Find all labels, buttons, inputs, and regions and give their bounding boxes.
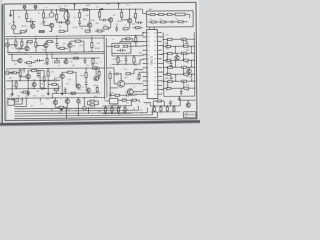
svg-text:100n: 100n [91,20,95,22]
relay coil K2 [49,12,54,17]
svg-text:4k7: 4k7 [178,98,181,100]
resistor R32 [133,57,135,62]
svg-text:P2: P2 [5,104,7,106]
capacitor C10 [125,58,128,60]
junction dots [26,10,27,11]
resistor R50 [90,100,95,102]
svg-text:23: 23 [154,63,156,65]
svg-text:47u: 47u [133,17,136,19]
dot [121,73,122,74]
resistor R35 [47,71,49,76]
svg-text:10k: 10k [58,112,61,114]
resistor R11 [103,27,108,29]
resistor R65 [97,30,102,32]
wire bus line [14,115,152,116]
dashed enclosure (tuner box) [147,11,194,27]
wire bus line [14,117,157,118]
resistor R49 [59,106,64,108]
gnd [178,98,180,99]
wire [75,72,77,84]
wire [51,28,53,32]
resistor R27 [91,43,93,48]
svg-text:26: 26 [154,76,156,78]
wire [110,87,118,89]
svg-text:13: 13 [148,41,150,43]
resistor R14 [150,14,155,16]
transistor Q1 [30,24,34,28]
dot [46,54,47,55]
svg-text:10k: 10k [18,17,21,19]
wire vertical bus 2 [105,38,108,97]
resistor R21 [15,41,17,46]
resistor R17 [175,13,185,16]
wire [147,14,150,16]
resistor R75 [98,71,100,76]
transistor Q8 [44,43,48,47]
resistor R23 [35,42,37,47]
svg-text:10k: 10k [51,71,54,73]
resistor R7 [59,30,64,32]
capacitor C18 [37,59,39,62]
svg-text:+12V: +12V [86,5,91,7]
svg-text:22: 22 [154,59,156,61]
svg-text:R74: R74 [41,96,44,98]
resistor R52 [27,62,32,64]
wire [112,63,140,65]
transistor Q2 [49,23,53,27]
svg-text:560: 560 [166,48,169,50]
svg-text:0.1: 0.1 [21,70,23,72]
svg-text:R70: R70 [9,96,12,98]
wire [151,108,153,115]
svg-text:100n: 100n [66,109,70,111]
svg-text:30: 30 [154,94,156,96]
capacitor C20 [40,87,42,90]
resistor R69 [126,38,130,40]
svg-text:560: 560 [97,43,100,45]
transistor Q6 [127,19,131,23]
resistor R9 [85,30,90,32]
svg-text:P4: P4 [5,109,7,111]
svg-text:10k: 10k [40,103,43,105]
resistor R3 [20,31,25,33]
svg-text:330: 330 [172,108,175,110]
svg-text:BD135: BD135 [109,93,114,95]
wire [164,95,195,97]
wire [95,68,97,76]
resistor R31 [117,57,119,62]
wire bus line [14,107,120,110]
power transistor Q15 [127,89,133,95]
svg-text:330: 330 [139,53,142,55]
svg-text:4u7: 4u7 [71,94,74,96]
wire [142,9,144,13]
relay box [109,98,118,104]
svg-text:25: 25 [154,72,156,74]
svg-text:2n2: 2n2 [104,25,107,27]
wire bus line [14,103,22,105]
capacitor C26 [170,76,173,78]
wire [51,54,53,58]
svg-text:10k: 10k [67,16,70,18]
svg-text:560: 560 [125,39,128,41]
svg-text:R38: R38 [91,65,94,67]
svg-text:47k: 47k [72,65,75,67]
svg-text:C20: C20 [36,91,39,93]
capacitor C5 [102,19,104,22]
wire [193,32,196,96]
ground [10,10,12,13]
svg-text:1k: 1k [118,115,120,117]
svg-text:4: 4 [148,81,149,83]
svg-text:10k: 10k [152,99,155,101]
wire [133,91,143,93]
resistor R28 [115,45,120,47]
capacitor C14 [109,93,112,95]
capacitor C2 [42,20,45,22]
wire [61,80,63,92]
svg-text:Q6: Q6 [116,24,118,26]
svg-text:BC547: BC547 [118,21,123,23]
svg-text:R43: R43 [186,50,189,52]
resistor R13 [123,28,128,30]
svg-text:4u7: 4u7 [30,88,33,90]
svg-text:47u: 47u [68,79,71,81]
wire drop [87,107,89,113]
svg-text:100n: 100n [80,75,84,77]
resistor R20 [178,21,183,23]
dot [15,44,16,45]
gnd [47,92,49,93]
svg-text:4k7: 4k7 [30,19,33,21]
svg-text:P6: P6 [5,114,7,116]
resistor R64 [96,87,98,91]
wire [112,55,143,57]
resistor R44 pair [166,59,171,61]
capacitor C4 [78,21,81,23]
svg-text:100k: 100k [79,45,83,47]
svg-text:330: 330 [17,52,20,54]
transistor Q4 [87,23,91,27]
svg-text:Q14: Q14 [124,77,127,79]
svg-text:R77: R77 [135,69,138,71]
transistor Q19 [65,99,69,103]
resistor R55 [74,57,79,59]
svg-text:T2: T2 [133,87,135,89]
svg-text:C21: C21 [58,86,61,88]
dot [104,67,105,68]
svg-text:BD135: BD135 [112,105,117,107]
svg-text:5: 5 [148,76,149,78]
svg-text:7: 7 [148,68,149,70]
test point TP1 [23,5,26,8]
svg-text:4k7: 4k7 [12,86,15,88]
wire [120,40,143,42]
svg-text:17: 17 [154,37,156,39]
resistor R25 [59,47,64,49]
svg-text:4u7: 4u7 [14,64,17,66]
dot [26,21,27,22]
wire bus line [14,101,18,103]
wire [97,101,99,105]
capacitor C9 [120,49,122,52]
resistor R45 pair [168,66,173,68]
title block [183,112,196,118]
svg-text:3: 3 [148,85,149,87]
svg-text:330: 330 [74,53,77,55]
svg-text:47k: 47k [186,90,189,92]
svg-text:BD135: BD135 [95,48,100,50]
transistor Q5 [108,18,112,22]
wire [113,68,115,84]
svg-text:0.1: 0.1 [58,65,60,67]
svg-text:2n2: 2n2 [59,26,62,28]
transistor Q10 [26,74,30,78]
svg-text:12: 12 [148,46,150,48]
svg-text:1: 1 [148,94,149,96]
resistor R26 [75,40,80,42]
svg-text:C22: C22 [107,29,110,31]
svg-text:4k7: 4k7 [81,28,84,30]
svg-text:21: 21 [154,54,156,56]
svg-text:C4: C4 [74,17,76,19]
dot [7,52,8,53]
node B arrow [117,3,119,9]
wire [106,45,111,47]
svg-text:1n: 1n [186,102,188,104]
svg-text:1n: 1n [112,39,114,41]
svg-text:BC547: BC547 [90,107,95,109]
dot [18,98,19,99]
dot [121,9,122,10]
svg-text:R73: R73 [33,96,36,98]
svg-text:R60: R60 [49,80,52,82]
dot [35,38,36,39]
wire mid rail 2 [5,37,103,40]
svg-text:C9: C9 [127,5,129,7]
capacitor C6 [170,20,172,23]
svg-text:TDA1170: TDA1170 [151,55,154,65]
svg-text:47k: 47k [55,19,58,21]
wire [40,69,44,71]
wire rail [52,57,100,59]
svg-text:L2: L2 [160,19,162,21]
transistor Q9 [68,43,72,47]
gnd [60,108,62,109]
svg-text:330: 330 [186,62,189,64]
resistor R78 [21,41,23,46]
transistor Q16 [175,56,179,60]
svg-text:R71: R71 [17,96,20,98]
resistor R41 pair [167,38,172,40]
svg-text:TV-7: TV-7 [185,113,189,115]
resistor R18 [151,21,156,23]
scan shadow left edge [1,4,3,124]
wire [13,10,15,24]
transistor Q17 [187,69,191,73]
svg-text:F1: F1 [46,7,48,9]
svg-text:1n: 1n [166,90,168,92]
wire inter-row links [166,40,168,46]
resistor R5 [39,30,44,32]
svg-text:C6: C6 [176,19,178,21]
svg-text:18: 18 [154,41,156,43]
trimmer P1 [11,25,15,29]
wire [161,36,163,38]
resistor R15 [159,13,164,15]
resistor R58 [15,83,17,87]
svg-text:20: 20 [154,50,156,52]
svg-text:L1: L1 [150,19,152,21]
resistor R61 [43,77,45,81]
dot [85,68,86,69]
enclosure box [112,43,131,53]
resistor R47 pair [168,80,173,82]
svg-text:BC547: BC547 [156,101,161,103]
wire mid rail 1 [5,35,143,36]
resistor R24 [47,40,52,42]
wire [42,59,44,61]
capacitor C23 [138,21,140,24]
svg-text:1k: 1k [12,48,14,50]
resistor R12 [120,12,122,17]
gnd [61,92,63,93]
wire top supply rail [11,9,143,10]
resistor R1 [60,9,65,11]
svg-text:0.1: 0.1 [123,98,125,100]
dot [89,9,90,10]
svg-text:1k: 1k [97,29,99,31]
wire [133,70,135,74]
svg-text:11: 11 [148,50,150,52]
transistor Q13 [94,76,99,81]
resistor R38 [93,67,98,69]
resistor R53 [46,58,48,63]
connector K1 body [8,99,15,105]
dot [20,80,21,81]
wire rail [150,111,180,113]
resistor R74 [157,100,161,102]
IC U1 right pins [157,31,161,33]
lamp L3 [77,99,81,103]
wire [119,106,121,108]
inductor L4 [64,11,69,20]
wire [149,27,151,29]
svg-text:BC547: BC547 [113,59,118,61]
capacitor C15 [170,63,173,65]
power transistor Q14 [118,80,125,87]
svg-text:4u7: 4u7 [186,54,189,56]
wire [39,98,41,101]
wire [56,10,58,14]
capacitor C19 [84,59,87,61]
wire [51,93,53,97]
dot [142,32,143,33]
resistor R46 pair [166,73,171,75]
svg-text:BD135: BD135 [44,63,49,65]
capacitor C28 [125,94,127,97]
resistor R43 pair [168,52,173,54]
svg-text:330: 330 [134,65,137,67]
dot [20,76,21,77]
svg-text:2n2: 2n2 [40,83,43,85]
resistor R16 [167,13,172,15]
svg-text:22k: 22k [113,15,116,17]
scan shadow bottom edge [0,122,200,125]
resistor R76 [115,94,119,96]
svg-text:4k7: 4k7 [74,110,77,112]
gnd [11,93,13,94]
svg-text:BD135: BD135 [22,26,27,28]
input jack J1 [5,43,9,47]
capacitor C22 [115,27,118,29]
resistor R57 [12,72,17,74]
svg-text:22k: 22k [94,79,97,81]
svg-text:4k7: 4k7 [66,83,69,85]
svg-text:100k: 100k [97,111,101,113]
svg-text:C13: C13 [95,63,98,65]
capacitor C24 [37,73,40,75]
resistor R8 [78,13,80,18]
svg-text:1/1: 1/1 [185,116,187,118]
test point TP2 [34,5,37,8]
wire rail lower-left [6,79,48,81]
wire [120,74,122,81]
wire [13,29,15,33]
wire [7,39,9,53]
dot [104,51,105,52]
wire [39,81,41,89]
svg-text:S1: S1 [65,6,67,8]
resistor R19 [161,21,166,23]
svg-text:R11: R11 [96,23,99,25]
wire [148,21,151,23]
svg-text:R46: R46 [165,78,168,80]
wire [23,69,25,73]
dot [117,55,118,56]
wire [162,32,165,96]
capacitor C11 [53,79,55,82]
svg-text:C2: C2 [38,13,40,15]
wire [11,54,13,60]
wire [130,100,132,106]
svg-text:R72: R72 [25,96,28,98]
svg-text:10k: 10k [86,65,89,67]
wire rail [52,92,100,94]
transistor Q7 [25,46,29,50]
capacitor C16 [180,90,183,92]
wire [146,108,148,113]
wire bus line [14,113,147,114]
svg-text:0.1: 0.1 [40,24,42,26]
wire drop [77,104,79,116]
svg-text:24: 24 [154,68,156,70]
resistor R34 [32,69,37,71]
resistor R60 [52,83,56,85]
svg-text:100k: 100k [93,96,97,98]
wire [131,45,143,47]
svg-text:P3: P3 [5,106,7,108]
svg-text:8: 8 [148,63,149,65]
dot [135,46,136,47]
wire [45,48,47,52]
svg-text:P1: P1 [5,102,7,104]
wire [83,41,85,51]
svg-text:2n2: 2n2 [78,103,81,105]
svg-text:R66: R66 [132,24,135,26]
dot [56,58,57,59]
svg-text:22k: 22k [70,61,73,63]
